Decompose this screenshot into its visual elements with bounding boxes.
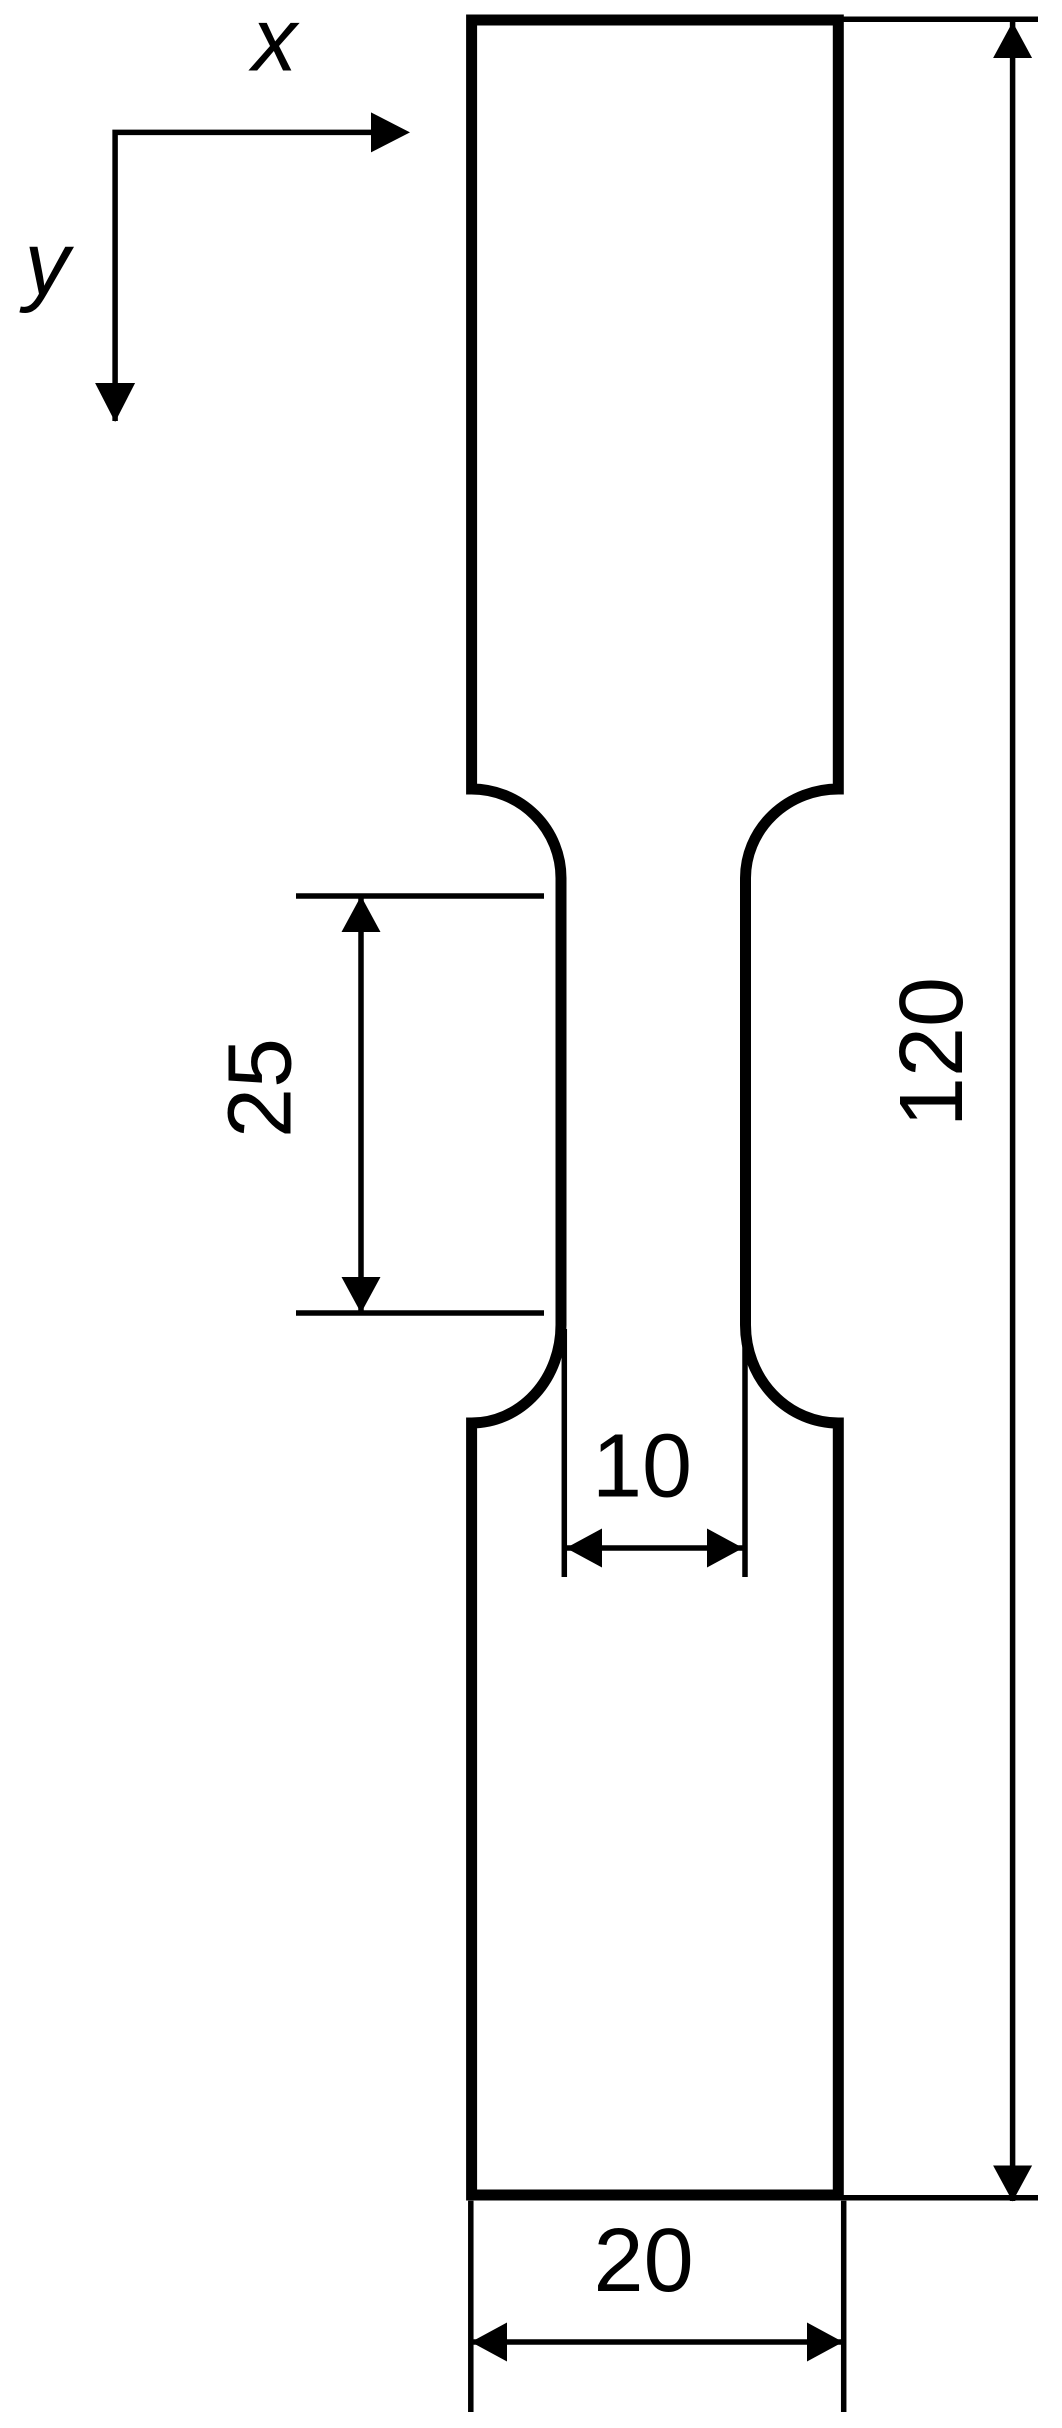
- 120 top arrowhead: [993, 22, 1032, 58]
- svg-text:25: 25: [210, 1038, 310, 1138]
- 10 right arrowhead: [707, 1529, 743, 1568]
- 10 dimension: right extension line: [742, 1329, 748, 1577]
- 20 dimension: left extension line: [468, 2201, 474, 2412]
- axis origin and x-axis line: [115, 132, 371, 421]
- 120 dimension: bottom extension line: [843, 2195, 1038, 2201]
- 120 dimension: top extension line: [843, 17, 1038, 23]
- 10 left arrowhead: [566, 1529, 602, 1568]
- x-axis arrowhead: [371, 112, 410, 152]
- 20 left arrowhead: [471, 2323, 507, 2362]
- 25 dimension: bottom tick line: [296, 1310, 544, 1316]
- 120 bottom arrowhead: [993, 2166, 1032, 2202]
- 120 dimension line: [1010, 22, 1016, 2201]
- 10 dimension: left extension line: [562, 1329, 568, 1577]
- y-axis arrowhead: [95, 383, 135, 422]
- 25 bottom arrowhead: [342, 1277, 381, 1313]
- 10 dimension line: [566, 1545, 743, 1551]
- 20 dimension: right extension line: [841, 2201, 847, 2412]
- svg-text:120: 120: [882, 977, 982, 1127]
- svg-text:x: x: [248, 0, 300, 91]
- 20 right arrowhead: [807, 2323, 843, 2362]
- 25 top arrowhead: [342, 896, 381, 932]
- 25 dimension: top tick line: [296, 893, 544, 899]
- svg-text:10: 10: [592, 1416, 692, 1516]
- svg-text:20: 20: [594, 2211, 694, 2311]
- 25 dimension line: [358, 896, 364, 1313]
- 20 dimension line: [471, 2339, 843, 2345]
- specimen outline: [472, 20, 839, 2195]
- svg-text:y: y: [19, 215, 75, 315]
